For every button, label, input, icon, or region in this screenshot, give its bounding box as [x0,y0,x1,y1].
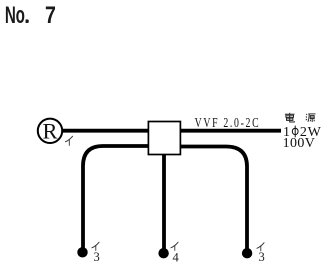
junction box [148,122,180,155]
kanji 源 (power source label) [306,114,316,122]
svg-text:7: 7 [45,1,56,29]
katakana イ label right dot [257,243,264,251]
wire: lower-right branch to lamp イ3 [179,147,247,250]
wire: lamp receptacle R to junction box [61,129,150,133]
katakana イ label middle dot [171,242,178,250]
wire: junction box to power source [179,129,281,133]
svg-text:R: R [42,119,57,144]
cable label VVF 2.0-2C [195,114,259,130]
katakana イ label at receptacle [65,136,72,145]
svg-text:VVF 2.0-2C: VVF 2.0-2C [195,114,259,130]
outlet dot left [77,247,87,257]
svg-text:100V: 100V [283,136,316,151]
katakana イ label left dot [92,242,99,250]
kanji 電 (power source label) [285,113,295,122]
wire: lower-left branch to lamp イ3 [83,146,150,249]
outlet dot right [242,248,252,258]
svg-text:4: 4 [173,251,180,265]
svg-text:3: 3 [259,250,265,264]
title No. 7 [5,1,56,29]
phi symbol [292,126,298,138]
lamp receptacle R [38,119,62,143]
outlet dot middle [158,248,168,258]
wire: middle branch to lamp イ4 [162,153,166,250]
svg-text:No.: No. [5,3,29,29]
svg-text:3: 3 [94,250,100,264]
